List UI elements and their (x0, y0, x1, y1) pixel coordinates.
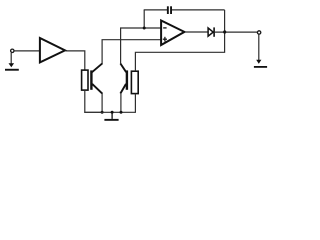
feedback wire top right (172, 9, 225, 11)
ground (input) arrowhead (9, 63, 15, 67)
wire R2 bottom to bus (134, 94, 136, 113)
ground (emitters) bar (104, 119, 118, 121)
feedback wire top left (144, 9, 167, 11)
diode D1 cathode bar (213, 27, 215, 36)
op-amp output wire (185, 31, 208, 33)
transistor Q2 collector diagonal (120, 64, 126, 73)
wire Q2 emitter to bus (120, 93, 122, 112)
output terminal J2 (257, 31, 260, 34)
buffer amp A1 (40, 38, 65, 62)
wire R2 top to output node (135, 32, 224, 71)
diode D1 triangle (208, 28, 213, 36)
transistor Q2 emitter diagonal (120, 84, 126, 94)
wire Q1 collector to op-amp +in (102, 40, 161, 64)
ground (emitters) stem (111, 112, 113, 119)
wire Q2 collector to op-amp -in (121, 28, 162, 64)
resistor R1 (82, 70, 88, 90)
junction dot -in node (143, 27, 146, 30)
op-amp U1 (161, 21, 184, 46)
capacitor C1 plate left (167, 6, 169, 14)
junction dot Q2 emitter (120, 111, 123, 114)
resistor R2 (131, 71, 138, 93)
ground (output) bar (254, 66, 267, 68)
junction dot Q1 emitter (101, 111, 104, 114)
wire diode to output terminal (215, 31, 258, 33)
wire output to ground (258, 35, 260, 61)
junction dot output node (223, 30, 226, 33)
wire buffer output to R1 (66, 51, 85, 70)
transistor Q2 base bar (126, 70, 128, 89)
transistor Q1 collector diagonal (92, 63, 102, 72)
op-amp plus sign (163, 38, 167, 40)
capacitor C1 plate right (170, 6, 172, 14)
wire input to ground (10, 53, 12, 64)
ground (input) bar (5, 69, 19, 71)
transistor Q1 base bar (90, 70, 92, 89)
transistor Q1 emitter diagonal (92, 84, 102, 94)
wire R1 to bus (85, 90, 102, 112)
wire input to buffer (14, 50, 39, 52)
ground (output) arrowhead (256, 60, 261, 64)
wire Q1 emitter to bus (101, 93, 103, 112)
junction dot ground node (111, 111, 114, 114)
op-amp minus sign (163, 27, 166, 29)
feedback vertical to -in (143, 10, 145, 28)
bus wire (emitters to R2 leg) (84, 111, 135, 113)
input terminal J1 (11, 49, 14, 52)
feedback vertical right (224, 10, 226, 32)
